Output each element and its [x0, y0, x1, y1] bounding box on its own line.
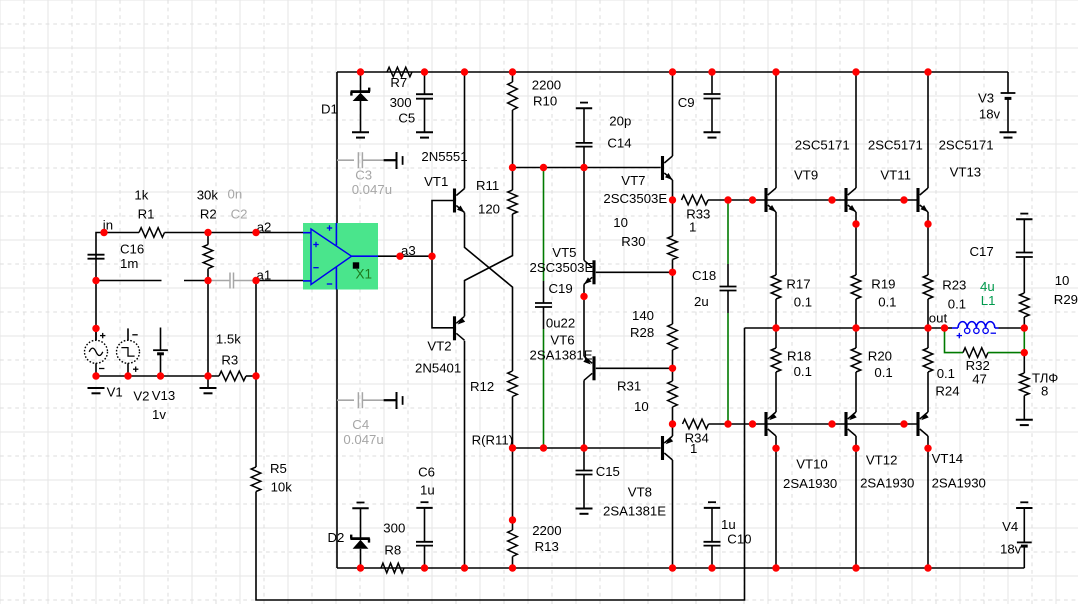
ground at V3	[1000, 132, 1017, 137]
transistor VT6	[530, 333, 595, 381]
svg-text:10: 10	[1055, 273, 1070, 288]
svg-text:VT9: VT9	[794, 168, 818, 183]
svg-text:V3: V3	[978, 91, 994, 106]
svg-text:V4: V4	[1002, 519, 1018, 534]
svg-text:0n: 0n	[228, 187, 243, 202]
resistor R34	[683, 419, 729, 456]
svg-text:VT10: VT10	[796, 457, 828, 472]
capacitor C3 (disabled)	[337, 152, 403, 197]
wire VT5 base	[596, 271, 673, 273]
svg-text:R30: R30	[621, 234, 645, 249]
svg-text:2SA1930: 2SA1930	[783, 476, 837, 491]
wire green R32 net left	[945, 328, 964, 353]
wire a3 row	[378, 255, 432, 257]
wire D1 column upper	[336, 72, 338, 223]
svg-text:R11: R11	[476, 178, 499, 193]
svg-text:R28: R28	[630, 325, 654, 340]
wire mid row	[513, 167, 661, 169]
svg-text:2SC3503E: 2SC3503E	[603, 191, 667, 206]
svg-text:2SA1930: 2SA1930	[860, 476, 914, 491]
capacitor C4 (disabled)	[337, 392, 403, 447]
node a2	[257, 220, 272, 235]
svg-text:2N5401: 2N5401	[415, 361, 461, 376]
svg-text:10k: 10k	[271, 480, 293, 495]
svg-text:R8: R8	[384, 543, 401, 558]
wire R1 to R2	[165, 232, 209, 234]
svg-text:C16: C16	[120, 242, 144, 257]
svg-text:0.1: 0.1	[794, 295, 812, 310]
svg-text:1k: 1k	[134, 188, 148, 203]
svg-text:V13: V13	[152, 388, 175, 403]
svg-text:R20: R20	[868, 349, 892, 364]
svg-text:0.1: 0.1	[794, 364, 812, 379]
node in	[103, 218, 113, 233]
svg-text:0.1: 0.1	[874, 365, 892, 380]
ground at D1	[352, 132, 369, 137]
wire VT10 collector	[775, 436, 777, 568]
svg-text:R31: R31	[617, 379, 641, 394]
wire C16 to V1	[95, 259, 97, 341]
svg-text:R3: R3	[221, 353, 238, 368]
svg-text:R13: R13	[535, 539, 559, 554]
svg-text:0u22: 0u22	[546, 316, 575, 331]
inductor L1	[945, 279, 999, 338]
transistor VT14	[918, 412, 986, 491]
svg-text:C4: C4	[352, 417, 369, 432]
svg-text:VT14: VT14	[932, 451, 964, 466]
capacitor C10	[704, 502, 752, 568]
svg-text:C2: C2	[231, 207, 248, 222]
wire green R32 net right	[988, 352, 1024, 354]
svg-text:D2: D2	[328, 530, 345, 545]
wire VT11 emitter	[855, 212, 857, 275]
wire R(R11) row	[472, 433, 661, 449]
wire VT5 emitter	[583, 284, 585, 356]
ground at C5	[416, 132, 433, 137]
svg-text:R18: R18	[787, 349, 811, 364]
wire VT14 collector	[927, 436, 929, 568]
wire R5 to feedback	[256, 328, 745, 600]
svg-text:4u: 4u	[980, 279, 995, 294]
resistor R17	[771, 275, 812, 328]
wire R2 column	[207, 269, 209, 388]
node a3	[401, 243, 416, 258]
svg-text:VT8: VT8	[628, 485, 652, 500]
wire upper base row	[728, 199, 917, 201]
wire a1 column down	[255, 281, 257, 468]
resistor R20	[851, 328, 893, 412]
transistor VT8	[603, 436, 673, 519]
svg-text:1.5k: 1.5k	[216, 332, 241, 347]
capacitor C14	[576, 103, 632, 168]
ground at TLF	[1016, 420, 1033, 425]
svg-text:2200: 2200	[532, 523, 561, 538]
wire VT6 base	[596, 367, 673, 369]
resistor R31	[617, 368, 677, 424]
svg-text:C19: C19	[549, 281, 573, 296]
transistor VT7	[603, 156, 672, 206]
svg-text:2SC5171: 2SC5171	[795, 138, 850, 153]
wire out row	[745, 311, 948, 329]
svg-text:out: out	[929, 311, 948, 326]
wire D1 column lower	[336, 290, 338, 569]
capacitor C2 (disabled)	[208, 187, 256, 289]
wire VT9 collector	[775, 72, 777, 188]
resistor R33	[682, 195, 729, 234]
wire R11 cross to VT2	[465, 214, 513, 316]
wire VT5 collector	[583, 168, 585, 261]
svg-text:C18: C18	[692, 268, 716, 283]
svg-text:2SC5171: 2SC5171	[868, 138, 923, 153]
svg-text:VT7: VT7	[621, 173, 645, 188]
svg-text:0.047u: 0.047u	[352, 182, 392, 197]
resistor R24	[923, 328, 959, 412]
svg-text:C9: C9	[678, 95, 695, 110]
resistor R32	[963, 348, 990, 387]
svg-text:0.047u: 0.047u	[343, 432, 383, 447]
svg-text:0.1: 0.1	[878, 295, 896, 310]
wire source rail	[96, 375, 219, 377]
svg-text:1: 1	[689, 220, 696, 235]
svg-text:VT1: VT1	[424, 174, 448, 189]
capacitor C15	[576, 448, 620, 509]
svg-text:20p: 20p	[609, 114, 631, 129]
svg-text:VT2: VT2	[427, 339, 451, 354]
svg-text:0.1: 0.1	[948, 297, 966, 312]
wire VT1 emitter cross	[465, 213, 513, 372]
transistor VT5	[530, 245, 595, 284]
svg-text:R23: R23	[942, 278, 966, 293]
zener diode D1	[321, 72, 370, 132]
resistor R12	[470, 371, 517, 520]
resistor R18	[771, 328, 812, 412]
svg-text:R1: R1	[138, 207, 155, 222]
svg-text:R5: R5	[270, 461, 287, 476]
battery V13	[152, 328, 175, 423]
svg-text:C5: C5	[398, 111, 415, 126]
node a1	[257, 268, 272, 283]
svg-text:2SA1930: 2SA1930	[932, 476, 986, 491]
transistor VT1	[421, 149, 467, 213]
svg-text:300: 300	[383, 521, 405, 536]
ground at C15	[576, 509, 593, 514]
resistor R2	[197, 188, 219, 269]
wire C16 bottom row	[96, 280, 162, 282]
wire green out column	[1023, 328, 1025, 353]
svg-text:18v: 18v	[1000, 542, 1022, 557]
svg-text:2SC3503E: 2SC3503E	[530, 260, 594, 275]
ground at R2	[200, 388, 217, 393]
svg-text:C17: C17	[970, 244, 994, 259]
svg-text:2u: 2u	[694, 294, 709, 309]
resistor R8	[381, 521, 405, 573]
capacitor C18	[692, 264, 737, 313]
resistor R5	[251, 461, 292, 495]
svg-text:C10: C10	[727, 532, 751, 547]
svg-text:VT11: VT11	[880, 168, 911, 183]
resistor R10	[508, 72, 561, 168]
wire VT13 collector	[927, 72, 929, 188]
svg-text:120: 120	[478, 202, 500, 217]
svg-text:VT12: VT12	[866, 453, 898, 468]
wire VT11 collector	[855, 72, 857, 188]
svg-text:C6: C6	[418, 465, 435, 480]
wire lower base row	[728, 423, 917, 425]
resistor R23	[923, 275, 966, 328]
svg-text:1u: 1u	[420, 483, 435, 498]
wire top supply rail	[337, 71, 1008, 73]
svg-text:R19: R19	[871, 277, 895, 292]
svg-text:R29: R29	[1054, 292, 1078, 307]
capacitor C16	[88, 242, 145, 272]
wire VT1 base column	[432, 201, 453, 328]
wire VT7 emitter	[672, 180, 674, 200]
svg-text:C15: C15	[596, 464, 620, 479]
svg-text:D1: D1	[321, 102, 338, 117]
svg-text:30k: 30k	[197, 188, 219, 203]
svg-text:VT13: VT13	[950, 165, 982, 180]
capacitor C5	[398, 72, 433, 132]
resistor R30	[613, 200, 677, 272]
resistor R11	[476, 168, 517, 217]
zener diode D2	[328, 503, 370, 569]
wire green C19 net upper	[543, 168, 545, 282]
battery V3	[978, 72, 1015, 132]
svg-text:2SC5171: 2SC5171	[939, 138, 994, 153]
wire R3 lead	[246, 375, 256, 377]
ground at V1	[88, 388, 105, 393]
capacitor C6	[416, 465, 435, 569]
svg-text:L1: L1	[981, 293, 996, 308]
resistor R19	[851, 275, 896, 328]
wire bottom supply rail	[337, 567, 1024, 569]
wire L1 to R29 node	[999, 327, 1025, 329]
svg-text:140: 140	[632, 308, 654, 323]
wire a1 row segment	[184, 280, 208, 282]
wire VT13 emitter	[927, 212, 929, 275]
resistor R3	[216, 332, 246, 381]
source V1	[85, 328, 123, 399]
svg-text:2200: 2200	[532, 78, 561, 93]
wire green C18 net lower	[727, 313, 729, 424]
svg-text:0.1: 0.1	[937, 366, 955, 381]
capacitor C9	[678, 72, 721, 132]
resistor R28	[630, 272, 677, 368]
resistor TLF speaker	[1020, 353, 1059, 420]
resistor R1	[134, 188, 164, 238]
wire VT8 collector	[672, 460, 674, 568]
svg-text:18v: 18v	[979, 107, 1001, 122]
svg-text:10: 10	[613, 215, 628, 230]
svg-text:X1: X1	[356, 267, 373, 282]
wire input to R1	[96, 233, 139, 259]
capacitor C19	[535, 281, 575, 331]
svg-text:2N5551: 2N5551	[421, 149, 467, 164]
resistor R13	[508, 520, 562, 568]
svg-text:R2: R2	[200, 207, 217, 222]
svg-text:R7: R7	[390, 75, 407, 90]
transistor VT9	[766, 138, 850, 213]
wire VT7 collector	[672, 72, 674, 156]
svg-text:1u: 1u	[721, 517, 736, 532]
svg-text:2SA1381E: 2SA1381E	[603, 504, 666, 519]
capacitor C17	[970, 214, 1033, 293]
svg-text:R24: R24	[935, 384, 959, 399]
svg-text:R17: R17	[786, 277, 810, 292]
svg-text:300: 300	[390, 95, 412, 110]
wire green C19 net lower	[543, 329, 545, 448]
source V2	[117, 328, 150, 403]
svg-text:VT5: VT5	[552, 245, 576, 260]
svg-text:R12: R12	[470, 379, 494, 394]
svg-text:1: 1	[690, 441, 697, 456]
svg-text:1m: 1m	[120, 256, 138, 271]
svg-text:47: 47	[972, 372, 987, 387]
wire VT8 emitter	[672, 424, 674, 436]
svg-text:1v: 1v	[152, 407, 166, 422]
svg-text:V2: V2	[133, 389, 149, 404]
svg-text:10: 10	[634, 399, 649, 414]
op-amp X1	[303, 223, 378, 290]
wire a2 row	[208, 232, 303, 234]
svg-text:V1: V1	[107, 385, 123, 400]
transistor VT10	[766, 412, 837, 491]
wire a1 to op-amp	[256, 280, 303, 282]
transistor VT11	[846, 138, 923, 213]
wire green C18 net upper	[727, 200, 729, 264]
svg-text:VT6: VT6	[550, 333, 574, 348]
svg-text:C14: C14	[607, 136, 631, 151]
transistor VT13	[918, 138, 994, 213]
battery V4	[1000, 502, 1033, 568]
svg-text:C3: C3	[355, 168, 372, 183]
wire VT1 collector	[464, 72, 466, 189]
svg-text:8: 8	[1041, 384, 1048, 399]
ground at C9	[704, 132, 721, 137]
svg-text:R10: R10	[533, 94, 557, 109]
wire VT2 collector	[464, 341, 466, 568]
resistor R7	[387, 67, 412, 110]
transistor VT2	[415, 316, 465, 375]
wire VT6 collector	[583, 380, 585, 448]
wire VT9 emitter	[775, 212, 777, 275]
transistor VT12	[846, 412, 914, 491]
resistor R29	[1020, 273, 1078, 328]
svg-text:R(R11): R(R11)	[472, 433, 514, 448]
wire VT12 collector	[855, 436, 857, 568]
